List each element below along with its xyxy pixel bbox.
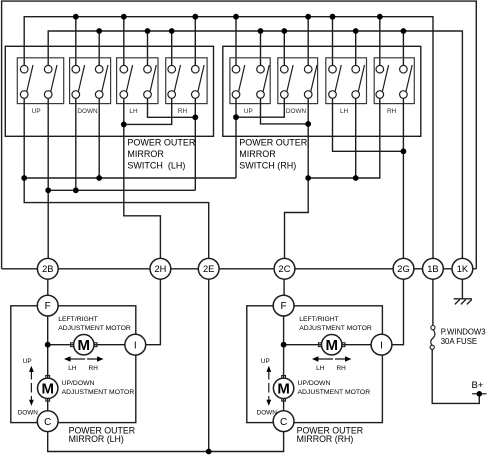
svg-text:M: M	[325, 337, 338, 354]
label UP (RH)	[244, 108, 253, 115]
switch RH (LH) contact 2	[192, 65, 205, 98]
label UP/DOWN ADJUSTMENT MOTOR (RH)	[298, 380, 371, 396]
svg-text:MIRROR (RH): MIRROR (RH)	[297, 434, 354, 444]
svg-text:UP: UP	[32, 108, 41, 115]
motor M1 left/right (RH mirror)	[319, 335, 345, 355]
switch DOWN (LH) contact 2	[95, 65, 108, 98]
wire: bus1 drop at x=75.8	[75, 17, 77, 66]
svg-text:DOWN: DOWN	[286, 108, 307, 115]
wire: LH DOWN-left contact down to wire B	[75, 98, 77, 190]
wire: bus 1 (upper feed wire)	[24, 17, 433, 259]
junction on bus1 at x=236.0	[233, 14, 239, 20]
switch UP (RH) box	[230, 58, 270, 104]
switch LH (RH) contact 2	[352, 65, 365, 98]
label DOWN (LH)	[18, 410, 39, 417]
arrow LH (LH)	[64, 356, 85, 361]
wire: F to M2 to C vertical (RH)	[283, 316, 285, 411]
fuse P.WINDOW3 30A	[430, 326, 435, 350]
switch DOWN (RH) contact 2	[304, 65, 317, 98]
svg-text:LEFT/RIGHT: LEFT/RIGHT	[58, 316, 98, 323]
label POWER OUTER MIRROR (LH)	[69, 425, 135, 444]
svg-text:LH: LH	[316, 365, 325, 372]
arrow UP/DOWN (LH)	[29, 366, 34, 406]
wire: LH RH-right contact vertical	[194, 98, 196, 190]
switch DOWN (RH) contact 1	[281, 65, 294, 98]
connector pin 2C	[274, 258, 295, 279]
wire: 1K down to ground	[461, 279, 463, 299]
switch UP (LH) box	[17, 58, 63, 104]
svg-text:2H: 2H	[154, 264, 166, 274]
wire: LH UP-left contact down + wire C to 2E	[24, 98, 209, 258]
svg-text:ADJUSTMENT MOTOR: ADJUSTMENT MOTOR	[58, 325, 131, 332]
pin C (LH mirror)	[37, 411, 58, 432]
label POWER OUTER MIRROR (RH)	[297, 425, 363, 444]
wire: 2B to F (LH mirror)	[47, 279, 49, 295]
wire: RH UP-left contact vertical (wire A riser)	[235, 98, 237, 178]
pin I (LH mirror)	[125, 334, 146, 355]
switch LH (LH) box	[117, 58, 158, 104]
label LEFT/RIGHT ADJUSTMENT MOTOR (LH)	[58, 316, 131, 332]
junction at (47.7,344.7)	[45, 342, 51, 348]
power outer mirror (RH) box	[247, 306, 383, 423]
svg-text:C: C	[280, 417, 287, 428]
svg-text:M: M	[277, 381, 290, 398]
wire: branch to M1 and I (RH)	[284, 344, 372, 346]
label RH (LH)	[178, 108, 188, 115]
switch UP (LH) contact 2	[44, 65, 57, 98]
junction on bus1 at x=75.8	[73, 14, 79, 20]
wire: 2G down and left to I (RH mirror)	[392, 279, 404, 345]
svg-text:F: F	[281, 301, 287, 312]
power outer mirror switch (RH) box	[223, 46, 421, 136]
switch LH (LH) contact 2	[144, 65, 157, 98]
junction at (355.7,178.0)	[353, 175, 359, 181]
wire: LH DOWN-right contact down to wire A	[98, 98, 100, 178]
switch UP (RH) contact 2	[257, 65, 270, 98]
wire: bus1 drop at x=379.8	[379, 17, 381, 66]
switch RH (LH) contact 1	[168, 65, 181, 98]
junction at (236.0,117.2)	[233, 114, 239, 120]
svg-text:MIRROR (LH): MIRROR (LH)	[69, 434, 124, 444]
switch DOWN (LH) box	[70, 58, 111, 104]
connector pin 2G	[393, 258, 414, 279]
svg-text:2B: 2B	[42, 264, 53, 274]
wire: wire A2 (RH group horizontal) + riser to RH-left contact	[308, 98, 380, 178]
wire: wire A (LH group horizontal)	[24, 177, 236, 179]
svg-text:UP: UP	[261, 358, 270, 365]
label DOWN (LH)	[77, 108, 98, 115]
arrow LH (RH)	[312, 356, 333, 361]
junction at (195.3,117.3)	[192, 114, 198, 120]
wire: bus 2 (lower feed wire)	[48, 31, 462, 258]
motor M1 left/right (LH mirror)	[71, 335, 97, 355]
power outer mirror switch (LH) box	[5, 46, 213, 136]
pin F (LH mirror)	[37, 295, 58, 316]
wire: RH DOWN-left contact to UP-left vertical	[236, 98, 284, 117]
svg-text:SWITCH (RH): SWITCH (RH)	[239, 161, 296, 171]
junction on bus2 at x=403.4	[401, 28, 407, 34]
svg-text:2E: 2E	[203, 264, 214, 274]
junction on bus2 at x=99.2	[96, 28, 102, 34]
wire: bus2 drop at x=284.3	[283, 31, 285, 65]
junction on bus1 at x=123.8	[121, 14, 127, 20]
svg-text:I: I	[380, 340, 383, 351]
wire: bus2 drop at x=171.7	[171, 31, 173, 65]
motor M2 up/down (RH mirror)	[273, 376, 293, 402]
svg-text:I: I	[134, 340, 137, 351]
switch RH (RH) contact 2	[400, 65, 413, 98]
label DOWN (RH)	[257, 410, 278, 417]
junction at (283.6,344.7)	[281, 342, 287, 348]
wire: RH RH-right contact down to 2G	[402, 98, 404, 258]
svg-text:2C: 2C	[279, 264, 291, 274]
wire: RH LH-right contact down to wire A2	[355, 98, 357, 178]
junction on bus2 at x=355.7	[353, 28, 359, 34]
svg-text:RH: RH	[89, 365, 99, 372]
junction on bus2 at x=147.5	[145, 28, 151, 34]
wire: LH RH-left contact to LH-left vertical	[124, 98, 172, 124]
svg-text:RH: RH	[336, 365, 346, 372]
arrow RH (RH)	[335, 356, 351, 361]
wire: bus1 drop at x=123.8	[123, 17, 125, 66]
svg-text:UP/DOWN: UP/DOWN	[62, 380, 95, 387]
junction at (24.2,178.0)	[21, 175, 27, 181]
svg-text:B+: B+	[471, 380, 483, 391]
wire: fuse down and right to B+	[432, 349, 479, 403]
svg-text:UP/DOWN: UP/DOWN	[298, 380, 331, 387]
label LEFT/RIGHT ADJUSTMENT MOTOR (RH)	[299, 316, 372, 332]
label P.WINDOW3 30A FUSE	[441, 327, 486, 345]
switch RH (RH) box	[374, 58, 414, 104]
svg-text:F: F	[45, 301, 51, 312]
wire: LH LH-right contact to RH-right vertical	[148, 98, 196, 117]
svg-text:POWER OUTER: POWER OUTER	[127, 138, 196, 148]
svg-text:POWER OUTER: POWER OUTER	[239, 138, 308, 148]
wire: LH LH-left contact down + wire D to 2H	[124, 98, 161, 258]
wire: branch to M1 and I (LH)	[48, 344, 125, 346]
svg-text:RH: RH	[387, 108, 397, 115]
label UP (LH)	[23, 358, 32, 365]
svg-text:C: C	[44, 417, 51, 428]
label DOWN (RH)	[286, 108, 307, 115]
switch RH (RH) contact 1	[376, 65, 389, 98]
switch RH (LH) box	[166, 58, 207, 104]
svg-text:1K: 1K	[457, 264, 469, 274]
svg-text:1B: 1B	[427, 264, 438, 274]
wire: outer loop (top/left/right harness wire)	[2, 1, 477, 269]
junction at (123.8,124.4)	[121, 122, 127, 128]
svg-text:P.WINDOW3: P.WINDOW3	[441, 327, 486, 336]
svg-text:UP: UP	[244, 108, 253, 115]
switch UP (LH) contact 1	[20, 65, 33, 98]
svg-text:LEFT/RIGHT: LEFT/RIGHT	[299, 316, 339, 323]
junction at (99.2,178.0)	[96, 175, 102, 181]
connector pin 2E	[198, 258, 219, 279]
junction at (48.2,190.3)	[45, 187, 51, 193]
svg-text:ADJUSTMENT MOTOR: ADJUSTMENT MOTOR	[298, 389, 371, 396]
label UP/DOWN ADJUSTMENT MOTOR (LH)	[62, 380, 135, 396]
svg-text:2G: 2G	[397, 264, 409, 274]
wire: bus1 drop at x=308.2	[307, 17, 309, 66]
label UP (RH)	[261, 358, 270, 365]
junction on bus1 at x=308.2	[305, 14, 311, 20]
wire: wire B (LH group horizontal)	[48, 189, 195, 191]
junction at (308.2,123.9)	[305, 121, 311, 127]
wire: bus2 drop at x=355.7	[355, 31, 357, 65]
switch DOWN (RH) box	[278, 58, 318, 104]
wire: connector row horizontal	[2, 268, 477, 270]
label UP (LH)	[32, 108, 41, 115]
label LH/RH (LH)	[68, 365, 98, 372]
junction at (208.7,451.5)	[206, 449, 212, 455]
svg-text:DOWN: DOWN	[77, 108, 98, 115]
svg-text:LH: LH	[68, 365, 77, 372]
wire: 2H down and left to I (LH mirror)	[146, 279, 161, 345]
switch UP (RH) contact 1	[232, 65, 245, 98]
label RH (RH)	[387, 108, 397, 115]
pin F (RH mirror)	[273, 295, 294, 316]
wire: bus2 drop at x=260.5	[260, 31, 262, 65]
wire: bottom return wire C(LH)-2E-C(RH)	[48, 432, 284, 452]
connector pin 2B	[37, 258, 58, 279]
svg-text:DOWN: DOWN	[18, 410, 39, 417]
wire: bus2 drop at x=99.2	[98, 31, 100, 65]
connector pin 2H	[150, 258, 171, 279]
label POWER OUTER MIRROR SWITCH (LH)	[127, 138, 196, 171]
wire: bus2 drop at x=147.5	[147, 31, 149, 65]
junction on bus2 at x=260.5	[258, 28, 264, 34]
wire: F to M2 to C vertical (LH)	[47, 316, 49, 411]
svg-text:SWITCH (LH): SWITCH (LH)	[127, 161, 185, 171]
junction at (308.2,178.0)	[305, 175, 311, 181]
junction on bus1 at x=379.8	[377, 14, 383, 20]
connector pin 1B	[423, 258, 444, 279]
svg-text:MIRROR: MIRROR	[239, 149, 276, 159]
wire: bus1 drop at x=236.0	[235, 17, 237, 66]
wire: RH UP-right contact to DOWN-right vertical	[261, 98, 309, 124]
wire: RH DOWN-right vertical + jog to 2C	[285, 98, 309, 258]
motor M2 up/down (LH mirror)	[38, 376, 58, 402]
svg-text:30A FUSE: 30A FUSE	[441, 337, 477, 346]
pin I (RH mirror)	[371, 334, 392, 355]
wire: bus1 drop at x=195.3	[194, 17, 196, 66]
svg-text:M: M	[78, 337, 91, 354]
power outer mirror (LH) box	[11, 306, 136, 423]
switch LH (RH) box	[326, 58, 367, 104]
junction at (403.4,151.3)	[401, 148, 407, 154]
svg-text:ADJUSTMENT MOTOR: ADJUSTMENT MOTOR	[299, 325, 372, 332]
svg-text:RH: RH	[178, 108, 188, 115]
switch LH (LH) contact 1	[120, 65, 133, 98]
wire: 2E down to bottom wire	[208, 279, 210, 451]
ground	[454, 299, 472, 305]
svg-text:ADJUSTMENT MOTOR: ADJUSTMENT MOTOR	[62, 389, 135, 396]
junction on bus1 at x=195.3	[192, 14, 198, 20]
svg-text:LH: LH	[129, 108, 138, 115]
wire: 2C to F (RH mirror)	[283, 279, 285, 295]
wire: RH LH-left contact to RH-right vertical	[333, 98, 404, 151]
junction at (75.8,190.3)	[73, 187, 79, 193]
connector pin 1K	[452, 258, 473, 279]
junction on bus2 at x=171.7	[169, 28, 175, 34]
wire: bus1 drop at x=332.5	[332, 17, 334, 66]
label POWER OUTER MIRROR SWITCH (RH)	[239, 138, 308, 171]
label LH/RH (RH)	[316, 365, 346, 372]
wire: LH UP-right contact down to 2B	[47, 98, 49, 258]
wire: bus2 drop at x=403.4	[402, 31, 404, 65]
switch LH (RH) contact 1	[329, 65, 342, 98]
svg-text:LH: LH	[340, 108, 349, 115]
switch DOWN (LH) contact 1	[72, 65, 85, 98]
wire: 1B down to fuse	[432, 279, 434, 325]
svg-text:UP: UP	[23, 358, 32, 365]
arrow RH (LH)	[87, 356, 103, 361]
junction on bus1 at x=332.5	[330, 14, 336, 20]
svg-text:M: M	[41, 381, 54, 398]
B+ terminal	[471, 380, 486, 397]
svg-text:MIRROR: MIRROR	[127, 149, 164, 159]
label LH (RH)	[340, 108, 349, 115]
pin C (RH mirror)	[273, 411, 294, 432]
junction on bus2 at x=284.3	[281, 28, 287, 34]
arrow UP/DOWN (RH)	[266, 366, 271, 406]
label LH (LH)	[129, 108, 138, 115]
